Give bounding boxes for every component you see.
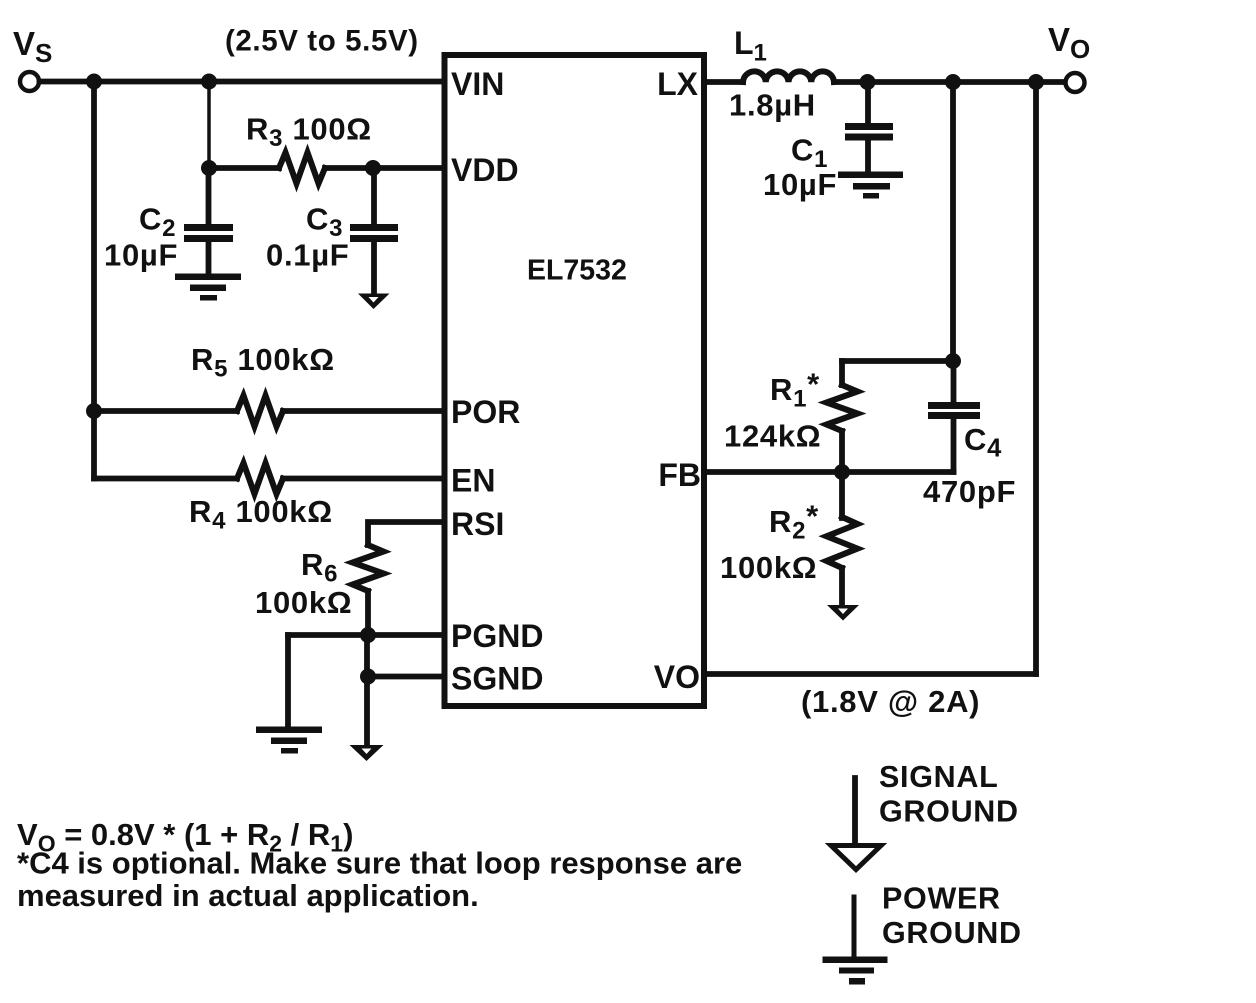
power ground for C1 (838, 172, 903, 199)
svg-text:10µF: 10µF (104, 238, 178, 273)
capacitor C1 (845, 82, 893, 172)
node junction C2/VDD at (209,168) (201, 160, 217, 176)
svg-text:POR: POR (451, 394, 520, 430)
node junction VDD branch at (209,81.5) (201, 74, 217, 90)
node junction SGND at (368,676.5) (360, 669, 376, 685)
svg-text:RSI: RSI (451, 506, 504, 542)
wire R2 top stem (839, 472, 845, 518)
wire PGND junction down to signal ground (364, 635, 370, 746)
legend power ground symbol (823, 897, 888, 985)
node junction FB at (842,472) (834, 464, 850, 480)
svg-text:1.8µH: 1.8µH (729, 88, 816, 123)
svg-text:10µF: 10µF (763, 167, 837, 202)
svg-text:VDD: VDD (451, 152, 519, 188)
svg-text:VO: VO (654, 659, 700, 695)
capacitor C3 (350, 168, 398, 294)
resistor R6 vertical zigzag (353, 545, 384, 591)
node junction C3/VDD at (373,168) (365, 160, 381, 176)
wire POR row right (283, 408, 444, 414)
svg-text:(1.8V @ 2A): (1.8V @ 2A) (801, 684, 980, 719)
svg-text:EN: EN (451, 463, 495, 499)
svg-text:measured in actual application: measured in actual application. (17, 878, 479, 913)
wire left rail vertical x=94 (91, 82, 97, 479)
wire EN row right (283, 476, 444, 482)
svg-text:124kΩ: 124kΩ (724, 419, 821, 454)
signal ground for C3 (358, 294, 390, 310)
resistor R4 zigzag (237, 463, 283, 494)
wire to power ground (285, 635, 291, 727)
power ground for PGND (256, 727, 322, 754)
wire VDD row left segment (209, 165, 279, 171)
svg-text:R4 100kΩ: R4 100kΩ (189, 494, 333, 535)
resistor R5 zigzag (237, 396, 283, 427)
inductor L1 (743, 71, 834, 82)
wire R1 top horizontal (842, 358, 953, 364)
svg-text:470pF: 470pF (923, 474, 1016, 509)
wire VO row (704, 671, 1036, 677)
wire R1 bottom stem (839, 431, 845, 472)
node junction Vs rail at (94,81.5) (86, 74, 102, 90)
svg-text:C2: C2 (139, 202, 176, 243)
node junction L1/C1 at (867,82) (860, 74, 876, 90)
signal ground below SGND (350, 745, 384, 761)
wire R6 bottom to PGND row (365, 591, 371, 635)
wire LX stub (704, 79, 743, 85)
svg-text:LX: LX (657, 66, 699, 102)
svg-text:POWER: POWER (882, 882, 1001, 916)
IC U1 EL7532 body (445, 55, 705, 706)
wire VDD row right segment (325, 165, 444, 171)
svg-text:0.1µF: 0.1µF (266, 238, 349, 273)
power ground for C2 (175, 274, 241, 301)
svg-text:SIGNAL: SIGNAL (879, 760, 998, 794)
capacitor C2 (184, 168, 233, 274)
resistor R2 vertical zigzag (827, 517, 858, 568)
resistor R1 vertical zigzag (827, 385, 858, 431)
svg-text:EL7532: EL7532 (527, 255, 627, 287)
wire RSI bend (368, 522, 444, 545)
svg-text:100kΩ: 100kΩ (255, 585, 352, 620)
wire PGND row (288, 632, 444, 638)
svg-text:VIN: VIN (451, 66, 504, 102)
svg-text:(2.5V to 5.5V): (2.5V to 5.5V) (225, 25, 419, 58)
wire R1 top stem (839, 361, 845, 385)
wire VO branch vertical x=1036 (1033, 82, 1039, 674)
svg-text:VO: VO (1048, 21, 1090, 64)
svg-text:FB: FB (658, 457, 701, 493)
svg-text:L1: L1 (734, 25, 767, 67)
node junction R1/C4 top at (953,361) (945, 353, 961, 369)
svg-text:GROUND: GROUND (879, 795, 1019, 829)
legend signal ground symbol (831, 778, 881, 870)
terminal Vo (1066, 73, 1085, 92)
svg-text:C3: C3 (306, 202, 343, 243)
node junction C4 branch at (953,82) (945, 74, 961, 90)
wire output top rail (834, 79, 1065, 85)
resistor R3 zigzag (279, 153, 325, 184)
wire C4 branch vertical x=953 (950, 82, 956, 361)
wire R2 bottom stem (839, 568, 845, 606)
node junction VO branch at (1036,82) (1028, 74, 1044, 90)
svg-text:R3 100Ω: R3 100Ω (246, 112, 372, 153)
wire VDD branch vertical x=209 (207, 82, 211, 169)
svg-text:R1*: R1* (770, 367, 820, 413)
svg-text:SGND: SGND (451, 661, 543, 697)
svg-text:R5 100kΩ: R5 100kΩ (191, 342, 335, 383)
node junction PGND at (368,635) (360, 627, 376, 643)
svg-text:R2*: R2* (769, 499, 819, 545)
svg-text:R6: R6 (301, 547, 338, 588)
capacitor C4 (928, 361, 980, 472)
wire EN row left (94, 476, 237, 482)
signal ground below R2 (827, 605, 859, 621)
svg-text:GROUND: GROUND (882, 916, 1022, 950)
wire POR row left (94, 408, 237, 414)
wire SGND row (368, 674, 444, 680)
svg-text:PGND: PGND (451, 618, 543, 654)
wire VIN: Vs terminal to IC (40, 79, 445, 85)
svg-text:VS: VS (13, 25, 52, 68)
svg-text:100kΩ: 100kΩ (720, 550, 817, 585)
wire FB row (704, 469, 954, 475)
svg-text:C4: C4 (964, 422, 1002, 463)
node junction POR/left rail (86, 403, 102, 419)
svg-text:*C4 is optional. Make sure tha: *C4 is optional. Make sure that loop res… (17, 846, 742, 881)
terminal Vs (20, 72, 39, 91)
